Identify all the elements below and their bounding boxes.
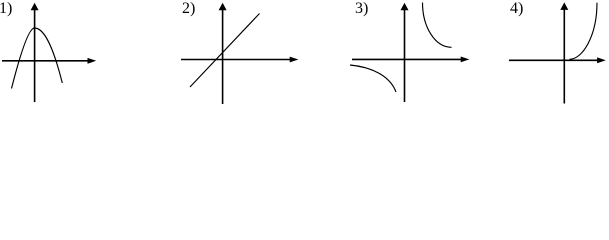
graph2 y-axis [219,3,227,104]
graph1 x-axis [2,58,96,64]
graph2 straight line [190,14,260,88]
graph4 x-axis [509,57,606,63]
svg-text:2): 2) [182,0,195,17]
graph2 x-axis [181,57,298,63]
graph4 y-axis [560,2,568,103]
svg-text:4): 4) [510,0,523,17]
graph3 hyperbola lower branch [350,65,396,92]
graph3 y-axis [401,3,409,102]
svg-text:1): 1) [0,0,12,17]
graph3 x-axis [352,57,469,63]
svg-text:3): 3) [355,0,368,17]
graph1 parabola curve [12,28,63,89]
graph4 exponential curve [570,3,598,60]
graph3 hyperbola upper branch [423,3,452,48]
graph1 y-axis [31,3,39,102]
